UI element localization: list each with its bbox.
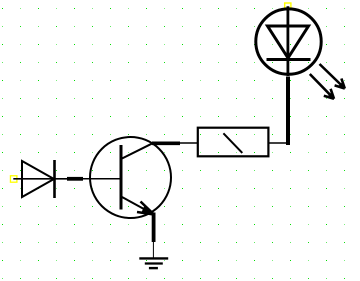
ground <box>139 242 168 268</box>
wire <box>152 141 180 145</box>
wire <box>286 77 290 146</box>
resistor R1 <box>180 128 288 157</box>
LED D2 <box>256 6 345 99</box>
terminal pin (LED anode) <box>285 3 291 8</box>
terminal pin (diode anode) <box>10 176 16 182</box>
wire <box>152 213 156 243</box>
transistor Q1 (NPN) <box>83 137 171 218</box>
wire <box>67 177 83 181</box>
diode D1 <box>13 160 67 198</box>
